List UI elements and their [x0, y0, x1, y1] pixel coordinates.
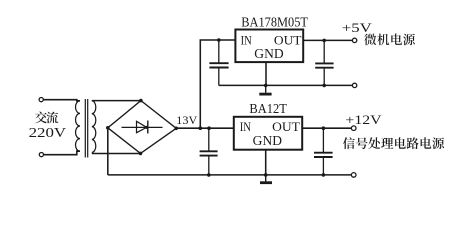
- junction node: C2 top on +5V wire: [322, 39, 326, 43]
- svg-text:BA178M05T: BA178M05T: [241, 14, 308, 29]
- +5V output terminal: [352, 38, 356, 42]
- junction node: C3 top lead on 13V rail: [207, 126, 211, 130]
- wire: U1 OUT to +5V terminal: [303, 39, 352, 41]
- svg-text:GND: GND: [254, 46, 284, 61]
- wire: secondary top to bridge AC node: [92, 100, 141, 102]
- junction node: C2 bottom on upper ground bus: [322, 84, 326, 88]
- wire: upper ground bus: [219, 84, 352, 86]
- svg-text:OUT: OUT: [272, 119, 300, 134]
- AC input terminal top: [39, 98, 43, 102]
- wire: bridge minus corner down to ground bus: [107, 128, 109, 175]
- ground symbol (lower): [260, 175, 272, 183]
- bridge rectifier D1 (diamond): [108, 101, 176, 154]
- capacitor C2 (output of U1): [315, 40, 333, 85]
- upper return terminal: [352, 83, 356, 87]
- wire: U2 OUT to +12V terminal: [302, 127, 351, 129]
- lower return terminal: [351, 173, 356, 178]
- diode symbol inside bridge: [122, 121, 163, 134]
- svg-text:13V: 13V: [176, 113, 197, 127]
- wire: secondary bottom to bridge AC node: [92, 153, 141, 155]
- +12V output terminal: [351, 126, 356, 131]
- wire: top terminal to transformer primary: [44, 100, 81, 101]
- transformer T1 core: [84, 99, 86, 158]
- svg-text:+5V: +5V: [342, 20, 373, 35]
- op-amp/regulator U2 BA12T box: [234, 117, 302, 150]
- svg-text:IN: IN: [241, 32, 253, 47]
- junction node: C1 top on U1 IN wire: [217, 38, 221, 42]
- svg-text:IN: IN: [240, 119, 252, 134]
- junction node: bridge top corner: [139, 99, 143, 103]
- junction node: U1 GND on upper bus: [264, 84, 268, 88]
- op-amp/regulator U1 BA178M05T box: [235, 30, 303, 63]
- junction node: C3 bottom on lower bus: [207, 173, 211, 177]
- svg-text:220V: 220V: [29, 125, 67, 140]
- svg-text:GND: GND: [253, 133, 283, 148]
- label 微机电源 (microcomputer power): [364, 34, 415, 46]
- wire: U1 GND pin down to bus: [265, 62, 267, 85]
- junction node: bridge right (plus) corner, node 13V: [174, 127, 178, 131]
- transformer T1 secondary winding: [92, 101, 96, 153]
- svg-text:OUT: OUT: [274, 32, 302, 47]
- label AC 220V: [35, 112, 58, 124]
- junction node: U2 GND on lower bus: [264, 173, 268, 177]
- wire: U2 GND pin down to bus: [265, 150, 267, 175]
- junction node: C4 bottom on lower bus: [322, 173, 326, 177]
- wire: lower ground bus: [108, 174, 351, 176]
- capacitor C3 (input of U2): [200, 128, 218, 175]
- label 信号处理电路电源 (signal-processing circuit power): [343, 137, 444, 149]
- capacitor C4 (output of U2): [314, 128, 333, 175]
- wire: 13V rail to U2 IN: [176, 127, 234, 129]
- capacitor C1 (input of U1): [209, 40, 228, 85]
- junction node: bridge bottom corner: [139, 152, 143, 156]
- wire: riser 13V rail up to U1 IN: [200, 40, 235, 128]
- transformer T1 primary winding: [75, 101, 80, 151]
- junction node: bridge left (minus) corner: [106, 126, 110, 130]
- AC input terminal bottom: [39, 153, 43, 157]
- svg-text:+12V: +12V: [345, 112, 382, 127]
- ground symbol (upper): [259, 85, 271, 94]
- svg-text:BA12T: BA12T: [249, 101, 287, 116]
- junction node: riser on 13V rail: [199, 126, 203, 130]
- junction node: C4 top on +12V wire: [322, 126, 326, 130]
- wire: bottom terminal to transformer primary: [44, 151, 80, 155]
